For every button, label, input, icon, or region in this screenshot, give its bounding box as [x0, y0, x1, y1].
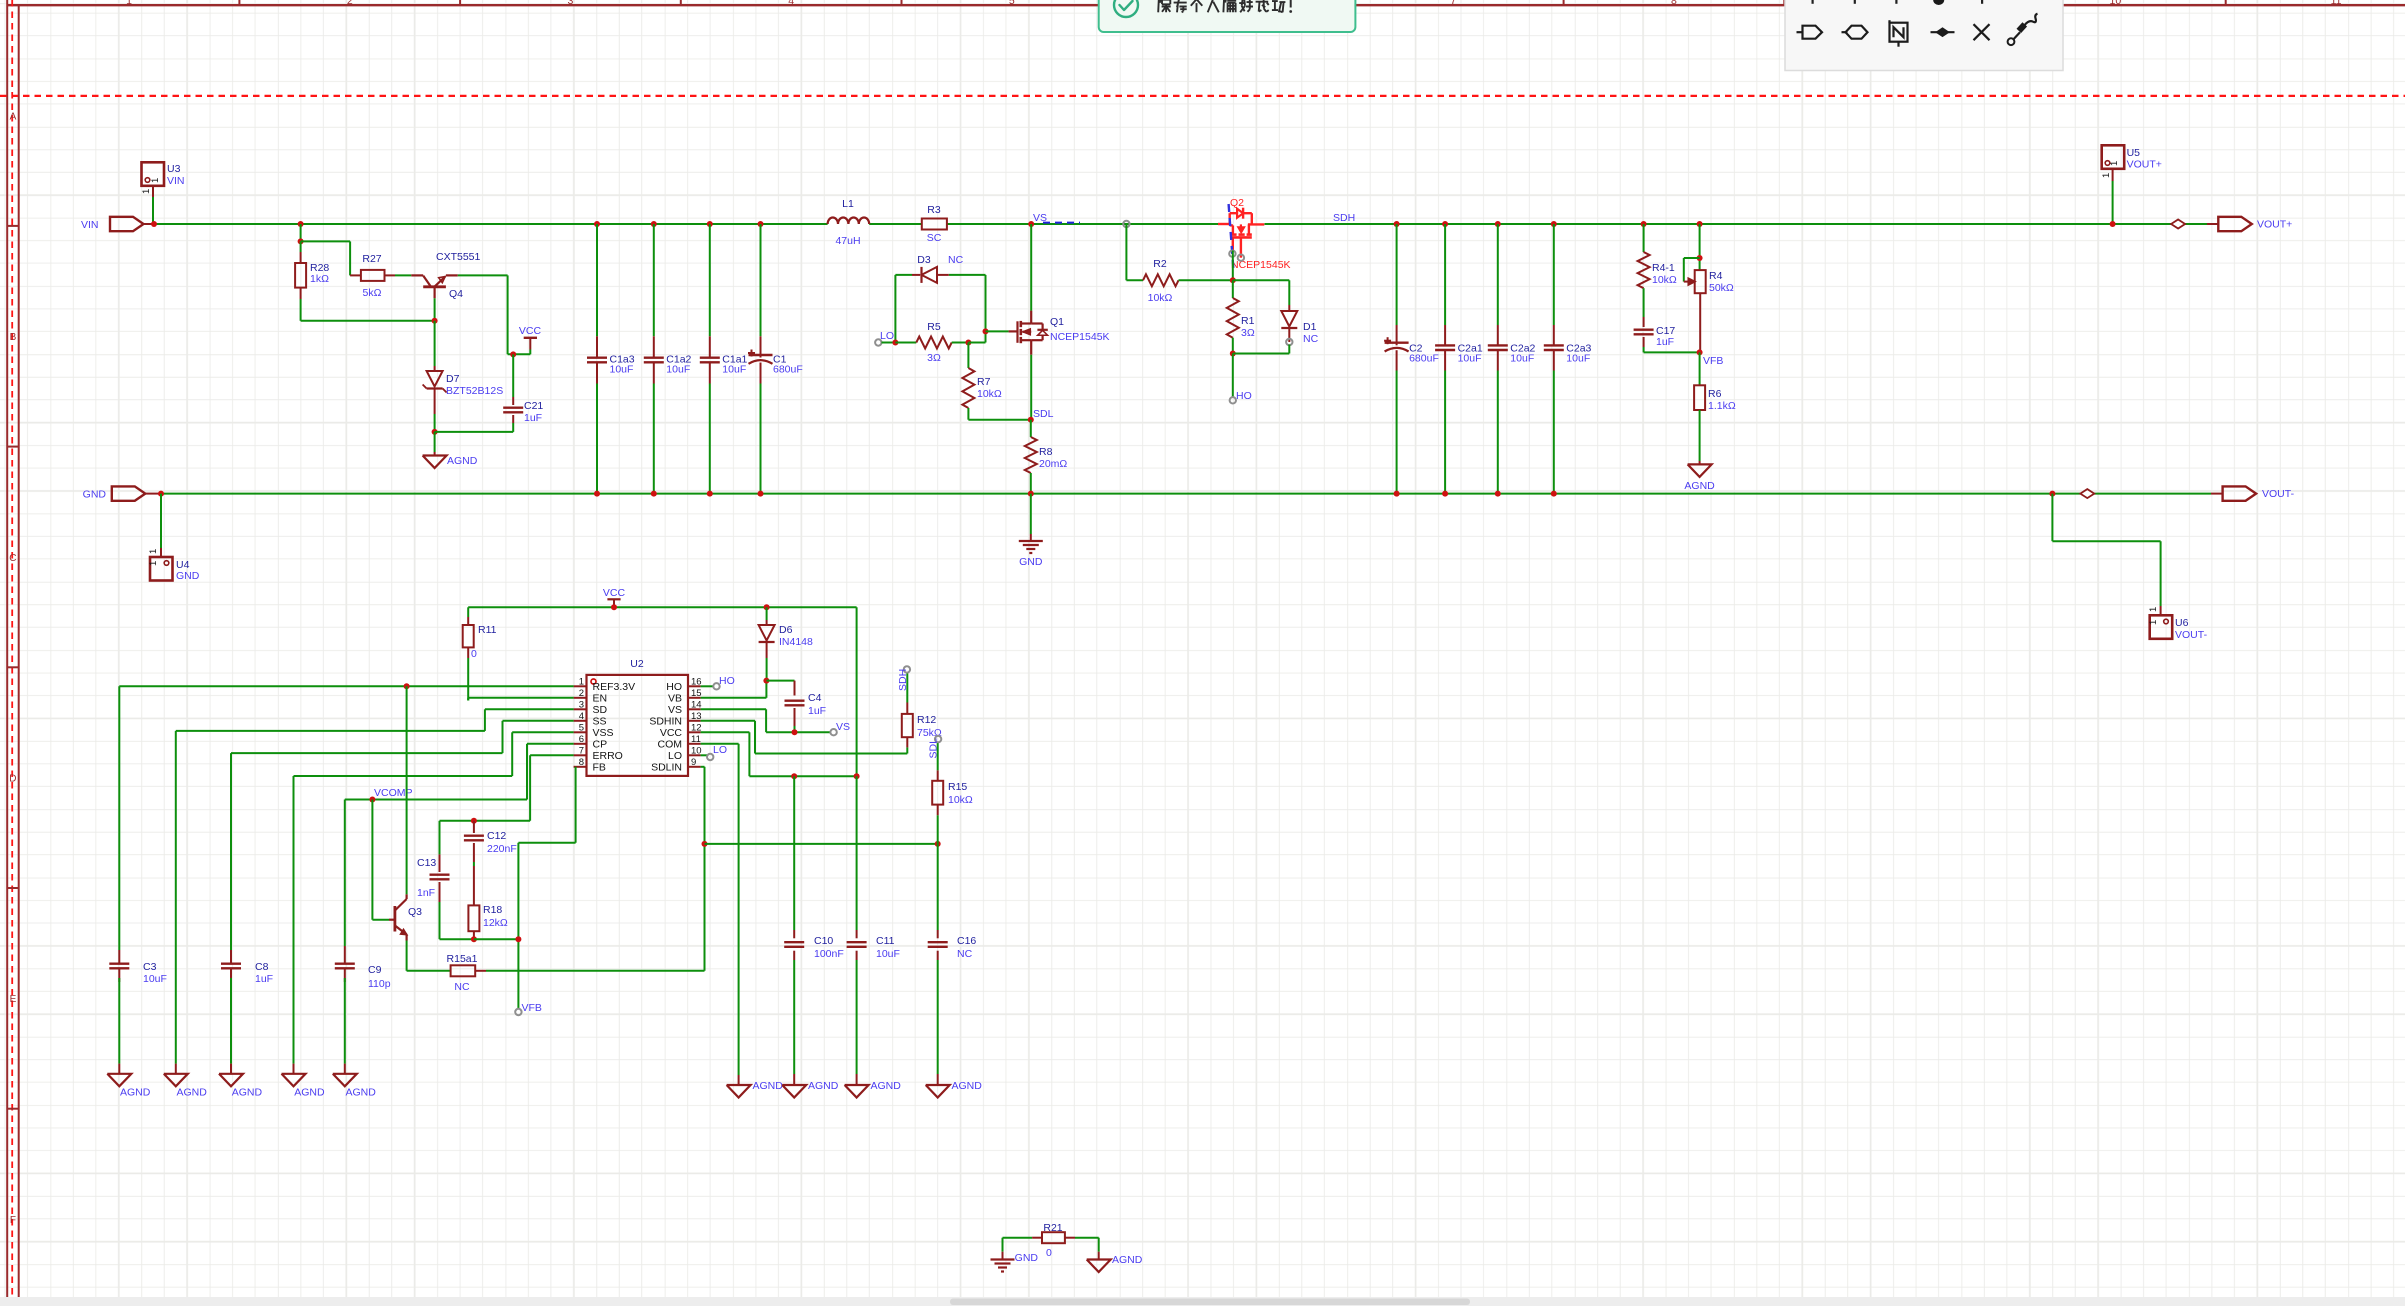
pin 8 U2 FB	[574, 766, 587, 768]
svg-text:5: 5	[1009, 0, 1015, 7]
wire rail to R2	[1125, 224, 1127, 280]
toolbar icon netport hexagon	[1842, 31, 1848, 33]
selection dash VS wire	[1043, 222, 1080, 224]
svg-text:4: 4	[579, 711, 584, 722]
junction R8/GND rail	[1028, 491, 1034, 497]
bottom scrollbar	[0, 1297, 2405, 1306]
wire EN pin2 from R11	[467, 698, 469, 701]
junction rail/C2a2 bottom	[1495, 491, 1501, 497]
svg-text:110p: 110p	[368, 978, 391, 990]
sheet row tick 5	[7, 1108, 19, 1110]
capacitor C2a2 10uF	[1488, 344, 1508, 346]
toast text glyph bao	[1158, 0, 1171, 12]
sheet column tick 9	[2004, 0, 2006, 5]
wire to HO stub	[1232, 354, 1234, 398]
wire VCC pin12	[701, 731, 750, 733]
svg-text:C11: C11	[876, 935, 895, 947]
wire VCC stub	[529, 350, 531, 355]
svg-text:ERRO: ERRO	[593, 750, 623, 762]
ground AGND col3	[219, 1074, 243, 1087]
svg-text:AGND: AGND	[871, 1080, 902, 1092]
pin VCC flag	[529, 338, 531, 349]
junction rail/R28	[298, 221, 304, 227]
svg-text:F: F	[10, 1215, 16, 1226]
wire R28 top	[300, 241, 302, 252]
wire R21 right down	[1098, 1238, 1100, 1252]
svg-text:R6: R6	[1708, 388, 1722, 400]
svg-text:9: 9	[691, 757, 696, 768]
svg-text:NC: NC	[454, 981, 470, 993]
svg-text:C13: C13	[417, 857, 436, 869]
capacitor C1a2 10uF	[644, 357, 664, 359]
capacitor C12 plates	[464, 835, 484, 837]
port GND	[112, 486, 146, 500]
svg-text:REF3.3V: REF3.3V	[593, 681, 636, 693]
junction D7/C21/AGND	[432, 429, 438, 435]
wire C1a3 top	[596, 224, 598, 336]
svg-text:C12: C12	[487, 830, 506, 842]
svg-text:VIN: VIN	[167, 175, 185, 187]
net point LO	[875, 339, 881, 345]
svg-text:13: 13	[691, 711, 702, 722]
junction VCC/C11	[854, 773, 860, 779]
sheet border top line	[7, 4, 2405, 6]
junction rail/C1a2 top	[651, 221, 657, 227]
resistor R11 0	[467, 607, 469, 617]
junction VS/Q1 drain	[1028, 221, 1034, 227]
wire Q3 collector from REF3.3V	[406, 686, 408, 894]
svg-text:SDL: SDL	[928, 738, 940, 759]
wire C1a1 top	[709, 224, 711, 336]
wire SD pin3 staircase	[485, 708, 574, 710]
junction C4/VS	[792, 729, 798, 735]
sheet column tick 7	[1563, 0, 1565, 5]
port VOUT-	[2223, 486, 2257, 500]
pin 2 U2 EN	[574, 697, 587, 699]
junction rail/C1a1 bottom	[707, 491, 713, 497]
wire GND rail to diamond	[2052, 493, 2080, 495]
selection dash Q2	[1229, 204, 1234, 272]
wire R21 left down	[1002, 1238, 1004, 1252]
wire R27 to Q4	[395, 274, 411, 276]
junction rail/C1 top	[758, 221, 764, 227]
junction FB/comp network	[515, 936, 521, 942]
svg-text:10uF: 10uF	[722, 364, 746, 376]
junction GND/U4	[158, 491, 164, 497]
junction rail/C1a3 bottom	[594, 491, 600, 497]
wire SDLIN pin9	[701, 766, 705, 768]
svg-text:1: 1	[126, 0, 132, 7]
svg-text:HO: HO	[719, 675, 735, 687]
sheet row tick 2	[7, 446, 19, 448]
wire R28 down	[300, 299, 302, 321]
wire VSS pin5 staircase	[512, 731, 573, 733]
wire column VSS	[293, 776, 295, 1064]
svg-text:1: 1	[2101, 173, 2112, 178]
wire C2a3 bottom	[1553, 371, 1555, 494]
svg-text:Q4: Q4	[449, 288, 463, 300]
wire rail to R4-1	[1643, 224, 1645, 252]
ground AGND col2	[164, 1074, 188, 1087]
inductor L1 47uH	[828, 217, 870, 224]
wire C1 bottom	[760, 384, 762, 494]
net point LO pin10	[707, 754, 713, 760]
net point HO pin16	[713, 683, 719, 689]
wire R1-D1 bottom	[1233, 353, 1290, 355]
wire VS to Q1 drain	[1030, 224, 1032, 311]
svg-text:VFB: VFB	[522, 1002, 542, 1014]
junction VIN/U3	[151, 221, 157, 227]
IC U2 body	[587, 675, 689, 776]
svg-text:L1: L1	[842, 198, 854, 210]
wire SS pin4 staircase	[503, 720, 574, 722]
svg-text:VIN: VIN	[81, 219, 99, 231]
pin R27 left	[350, 274, 361, 276]
svg-text:10kΩ: 10kΩ	[1652, 274, 1677, 286]
pin 5 U2 VSS	[574, 731, 587, 733]
svg-text:1kΩ: 1kΩ	[310, 273, 329, 285]
svg-text:R7: R7	[977, 376, 991, 388]
wire R15a1 to SDLIN column	[486, 970, 705, 972]
svg-text:R8: R8	[1039, 446, 1053, 458]
wire down to R27	[349, 241, 351, 275]
junction R5/R7/gate	[965, 340, 971, 346]
svg-text:C10: C10	[814, 935, 833, 947]
wire to AGND	[434, 432, 436, 452]
net point HO	[1230, 397, 1236, 403]
netflag VCC bar mid	[607, 598, 620, 600]
arrow Q3 emitter	[400, 929, 407, 935]
junction rail/C1 bottom	[758, 491, 764, 497]
wire wiper	[1684, 257, 1700, 259]
pin 11 U2 COM	[688, 743, 701, 745]
resistor R8 20mohm	[1030, 420, 1032, 437]
svg-text:1: 1	[148, 561, 159, 566]
wire R7 down	[967, 408, 969, 420]
toolbar icon node diamond	[1931, 31, 1955, 33]
wire C13 to R18 node	[440, 938, 474, 940]
arrow R4 wiper	[1688, 278, 1695, 285]
page break dashed horizontal	[0, 95, 2405, 97]
wire to D1	[1233, 279, 1290, 281]
wire C2 bottom	[1396, 371, 1398, 494]
wire VB pin15	[701, 697, 767, 699]
junction R18/C13	[471, 936, 477, 942]
pin 1 U2 REF3.3V	[574, 685, 587, 687]
junction R1/D1 bottom	[1230, 351, 1236, 357]
net point VS	[830, 729, 836, 735]
wire U3 to rail	[152, 197, 154, 224]
svg-text:680uF: 680uF	[773, 364, 803, 376]
sheet row tick 3	[7, 666, 19, 668]
transistor Q1 NCEP1545K nmos	[1009, 330, 1018, 332]
wire port stub VIN	[144, 223, 155, 225]
ground GND power	[1019, 540, 1043, 542]
svg-text:D3: D3	[917, 254, 931, 266]
junction rail/C2a3 top	[1551, 221, 1557, 227]
svg-text:10uF: 10uF	[1510, 353, 1534, 365]
wire Q4 base down	[434, 298, 436, 321]
wire Q1 source to SDL	[1030, 355, 1032, 420]
port VIN	[110, 217, 144, 231]
svg-text:3: 3	[579, 699, 584, 710]
transistor Q2 NCEP1545K selected (red)	[1218, 223, 1230, 225]
sheet column tick 3	[680, 0, 682, 5]
svg-text:100nF: 100nF	[814, 948, 844, 960]
wire rail to R28 node	[300, 224, 302, 241]
pin R28 top	[300, 252, 302, 263]
svg-text:3: 3	[568, 0, 574, 7]
pin 15 U2 VB	[688, 697, 701, 699]
capacitor C12 220nF	[473, 821, 475, 833]
capacitor C2a1 10uF	[1435, 344, 1455, 346]
svg-text:10uF: 10uF	[666, 364, 690, 376]
wire Q3 emitter down	[406, 941, 408, 971]
sheet border inner left line	[18, 5, 20, 1306]
wire Q2 gate down	[1232, 251, 1234, 281]
junction rail/C2a1 bottom	[1442, 491, 1448, 497]
wire column C3/REF	[118, 686, 120, 950]
wire R28 to Q4 base	[301, 320, 435, 322]
net point SDH	[904, 666, 910, 672]
svg-text:8: 8	[579, 757, 584, 768]
capacitor C21 1uF	[512, 354, 514, 397]
svg-text:R4-1: R4-1	[1652, 262, 1675, 274]
junction SDLIN/R15 line	[702, 841, 708, 847]
resistor R15a1	[451, 965, 476, 976]
svg-text:R21: R21	[1043, 1222, 1062, 1234]
svg-text:AGND: AGND	[232, 1087, 263, 1099]
svg-text:D: D	[9, 774, 16, 785]
toast check icon	[1114, 0, 1138, 17]
ground AGND col4	[282, 1074, 306, 1087]
svg-text:SC: SC	[927, 232, 942, 244]
wire ERRO pin7 staircase	[530, 754, 574, 756]
toolbar panel top right	[1785, 0, 2063, 71]
svg-text:50kΩ: 50kΩ	[1709, 282, 1734, 294]
wire rail to diamond	[2113, 223, 2171, 225]
svg-text:C4: C4	[808, 692, 822, 704]
resistor R27	[361, 270, 385, 281]
wire R5 to node	[952, 342, 969, 344]
wire C2a2 bottom	[1497, 371, 1499, 494]
svg-text:B: B	[10, 332, 17, 343]
wire diamond to VOUT- port	[2094, 493, 2211, 495]
pin R15a1 right	[475, 970, 486, 972]
junction R4 wiper tie	[1697, 255, 1703, 261]
toolbar icon remnant	[1981, 0, 1983, 4]
svg-text:AGND: AGND	[1112, 1254, 1143, 1266]
svg-text:IN4148: IN4148	[779, 636, 813, 648]
svg-text:R1: R1	[1241, 315, 1255, 327]
resistor R5	[916, 337, 951, 349]
wire R7 to SDL	[968, 419, 1030, 421]
svg-text:1uF: 1uF	[1656, 336, 1674, 348]
junction rail/C1a1 top	[707, 221, 713, 227]
capacitor C13 1nF	[430, 874, 450, 876]
junction R15/C16	[935, 841, 941, 847]
sheet column tick 4	[901, 0, 903, 5]
port VOUT+	[2218, 217, 2252, 231]
flag U3 VIN	[142, 162, 165, 186]
wire VCC rail	[468, 606, 856, 608]
capacitor C2a3 10uF	[1544, 344, 1564, 346]
wire VCOMP to Q3 base	[371, 800, 373, 920]
svg-text:R12: R12	[917, 714, 936, 726]
svg-text:VSS: VSS	[593, 727, 614, 739]
svg-text:LO: LO	[880, 330, 894, 342]
wire to R27 branch	[301, 240, 351, 242]
svg-text:GND: GND	[83, 489, 107, 501]
wire diamond to VOUT+ port	[2185, 223, 2207, 225]
transistor Q3	[372, 919, 389, 921]
junction SDL	[1028, 417, 1034, 423]
wire REF3.3V pin1	[119, 685, 573, 687]
svg-text:COM: COM	[658, 738, 683, 750]
svg-text:NC: NC	[1303, 333, 1319, 345]
wire Q4 emitter to VCC corner	[458, 274, 508, 276]
capacitor C16 NC	[937, 844, 939, 930]
svg-text:NC: NC	[957, 948, 973, 960]
pin 12 U2 VCC	[688, 731, 701, 733]
svg-text:R11: R11	[478, 624, 497, 636]
sheet row tick 1	[7, 225, 19, 227]
svg-text:R4: R4	[1709, 270, 1723, 282]
wire R12 to SDH	[906, 673, 908, 703]
svg-text:AGND: AGND	[120, 1087, 151, 1099]
svg-text:C: C	[9, 553, 16, 564]
resistor R3	[922, 219, 947, 230]
svg-text:10kΩ: 10kΩ	[1148, 292, 1173, 304]
svg-text:11: 11	[2331, 0, 2342, 7]
svg-text:10kΩ: 10kΩ	[948, 794, 973, 806]
svg-text:VS: VS	[668, 704, 682, 716]
net point SDL	[935, 736, 941, 742]
wire R2 to Q2 gate node	[1179, 279, 1233, 281]
wire SDL R15 line	[705, 843, 938, 845]
pin U6	[2160, 606, 2162, 615]
svg-text:15: 15	[691, 688, 702, 699]
net point VFB bottom	[515, 1009, 521, 1015]
wire VS pin14	[701, 708, 767, 710]
toolbar icon probe	[2008, 38, 2015, 45]
svg-text:LO: LO	[713, 744, 727, 756]
svg-text:0: 0	[471, 648, 477, 660]
wire to C4 top	[766, 680, 794, 682]
wire to GND symbol	[1030, 494, 1032, 534]
svg-text:BZT52B12S: BZT52B12S	[446, 385, 503, 397]
svg-text:AGND: AGND	[294, 1087, 325, 1099]
wire to R5	[895, 342, 916, 344]
wire C21 to AGND node	[435, 431, 514, 433]
capacitor C10 100nF	[793, 776, 795, 930]
wire C1 top	[760, 224, 762, 336]
junction VCC/C10	[791, 773, 797, 779]
capacitor C1a3 10uF	[587, 357, 607, 359]
pin 4 U2 SS	[574, 720, 587, 722]
svg-text:EN: EN	[593, 692, 608, 704]
junction VCOMP	[369, 797, 375, 803]
svg-text:R18: R18	[483, 904, 502, 916]
toolbar icon netlabel N	[1890, 23, 1908, 42]
junction Q4 base/R28/D7	[432, 318, 438, 324]
svg-text:D6: D6	[779, 624, 793, 636]
wire R8 to GND rail	[1030, 473, 1032, 494]
sheet column tick 1	[238, 0, 240, 5]
svg-text:2: 2	[347, 0, 353, 7]
svg-text:1: 1	[579, 676, 584, 687]
svg-text:14: 14	[691, 699, 702, 710]
resistor R1 3ohm	[1232, 280, 1234, 298]
capacitor C2 680uF	[1385, 342, 1409, 344]
svg-text:R3: R3	[927, 204, 941, 216]
svg-text:AGND: AGND	[447, 455, 478, 467]
diode D1 NC	[1288, 280, 1290, 305]
wire D7 to AGND node	[434, 414, 436, 432]
wire to Q1 gate	[968, 342, 985, 344]
svg-text:75kΩ: 75kΩ	[917, 727, 942, 739]
wire C1a2 top	[653, 224, 655, 336]
wire CP pin6 staircase	[527, 743, 574, 745]
capacitor C9 110p	[335, 963, 355, 965]
svg-text:1nF: 1nF	[417, 887, 435, 899]
flag U6 VOUT-	[2150, 615, 2173, 639]
toolbar icon port	[1797, 31, 1803, 33]
wire R4-1 to C17	[1643, 288, 1645, 317]
wire rail to R4	[1699, 224, 1701, 270]
svg-text:VFB: VFB	[1703, 355, 1723, 367]
junction rail/C2 top	[1394, 221, 1400, 227]
sheet row tick 4	[7, 887, 19, 889]
sheet column tick 10	[2225, 0, 2227, 5]
svg-text:220nF: 220nF	[487, 843, 517, 855]
svg-text:HO: HO	[666, 681, 682, 693]
junction LO/D3/R5	[892, 340, 898, 346]
junction ERRO/C12	[471, 818, 477, 824]
svg-text:1uF: 1uF	[808, 705, 826, 717]
pin R4 bottom	[1699, 293, 1701, 352]
svg-text:VCC: VCC	[660, 727, 683, 739]
svg-text:U2: U2	[630, 658, 644, 670]
svg-text:NCEP1545K: NCEP1545K	[1050, 331, 1110, 343]
wire VOUT- to U6	[2051, 494, 2053, 542]
resistor R28	[295, 263, 306, 288]
toolbar icon remnant	[1895, 0, 1897, 4]
wire D3 loop	[895, 274, 912, 276]
svg-text:47uH: 47uH	[835, 235, 860, 247]
net point Q2 gate pin	[1229, 251, 1235, 257]
toast text glyph gong	[1272, 1, 1286, 12]
ground AGND divider	[1688, 464, 1712, 477]
svg-text:C21: C21	[524, 400, 543, 412]
svg-text:6: 6	[579, 734, 584, 745]
wire VIN rail left segment	[154, 223, 828, 225]
svg-text:VS: VS	[836, 721, 850, 733]
svg-text:GND: GND	[1015, 1252, 1039, 1264]
svg-text:R15: R15	[948, 781, 967, 793]
pin U4	[160, 548, 162, 557]
svg-text:1: 1	[2148, 620, 2159, 625]
junction rail/C2a3 bottom	[1551, 491, 1557, 497]
svg-text:LO: LO	[668, 750, 682, 762]
net marker diamond VOUT-	[2080, 489, 2094, 498]
svg-text:10: 10	[691, 745, 702, 756]
svg-text:Q3: Q3	[408, 906, 422, 918]
svg-text:11: 11	[691, 734, 701, 745]
svg-text:R27: R27	[362, 253, 381, 265]
toolbar icon remnant	[1811, 0, 1813, 4]
toolbar icon X	[1974, 24, 1990, 40]
